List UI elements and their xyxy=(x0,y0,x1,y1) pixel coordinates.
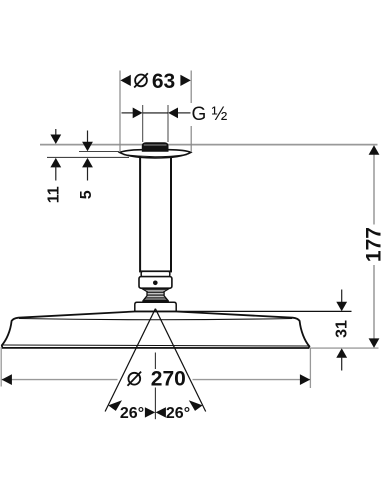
dimension 5 bottom arrow xyxy=(82,158,93,168)
thread cap xyxy=(142,143,168,152)
dimension Ø270 line left xyxy=(2,379,118,381)
dimension 11 bottom stem xyxy=(55,167,57,181)
dimension Ø63 left arrow xyxy=(120,75,130,86)
svg-text:26°: 26° xyxy=(166,405,190,422)
head top plane line with 31 extension xyxy=(135,310,352,312)
svg-text:G ½: G ½ xyxy=(192,104,228,125)
dimension 177 bottom arrow xyxy=(369,338,380,348)
spray cone left arrowhead xyxy=(108,400,122,411)
dimension 11 top stem xyxy=(55,129,57,136)
dimension Ø63 right extension line lower xyxy=(190,126,192,152)
G1/2 right arrow xyxy=(168,108,178,119)
svg-text:11: 11 xyxy=(46,186,63,203)
angle bowtie left arrow xyxy=(145,407,155,417)
dimension Ø270 left extension line xyxy=(0,347,2,387)
dimension 31 bottom stem xyxy=(341,357,343,371)
dimension 5 bottom stem xyxy=(87,167,89,181)
dimension Ø63 right arrow xyxy=(180,75,190,86)
top rim secondary arc xyxy=(19,319,292,320)
center line upper segment xyxy=(154,353,156,370)
thread right extension line xyxy=(167,105,169,142)
svg-text:177: 177 xyxy=(362,227,381,262)
flange bottom edge line xyxy=(124,155,187,157)
thread left extension line xyxy=(142,105,144,142)
spray cone right arrowhead xyxy=(189,400,203,411)
connector band upper xyxy=(141,271,170,276)
dimension Ø63 symbol xyxy=(135,75,147,87)
dimension 177 top arrow xyxy=(369,145,380,155)
G1/2 dimension line middle xyxy=(143,112,168,114)
bottom rim inner line xyxy=(2,345,309,346)
svg-text:5: 5 xyxy=(78,190,95,199)
dimension Ø270 line right xyxy=(193,379,311,381)
G1/2 dimension line right xyxy=(177,112,191,114)
ceiling reference line xyxy=(40,144,378,146)
G1/2 dimension line left xyxy=(122,112,135,114)
dimension 31 top arrow xyxy=(336,302,347,312)
shower head body xyxy=(2,312,310,349)
thread cap ridge lines xyxy=(144,144,167,146)
flange Ø63 xyxy=(120,150,191,158)
spray cone right line xyxy=(155,309,205,412)
dimension 177 line lower xyxy=(373,265,375,343)
dimension 11 bottom arrow xyxy=(50,158,61,168)
head bottom extension line right xyxy=(310,347,379,349)
angle bowtie right arrow xyxy=(156,407,166,417)
flange top extension line xyxy=(79,151,119,153)
dimension 31 top stem xyxy=(341,290,343,304)
dimension Ø270 right arrow xyxy=(300,374,310,385)
dimension Ø63 right extension line upper xyxy=(190,71,192,104)
ribbed swivel neck xyxy=(142,288,170,301)
svg-text:26°: 26° xyxy=(120,405,144,422)
dimension 31 bottom arrow xyxy=(336,348,347,358)
svg-text:63: 63 xyxy=(152,70,175,93)
dimension 11 top arrow xyxy=(50,135,61,145)
dimension Ø270 symbol xyxy=(128,373,140,385)
dimension Ø63 left extension line xyxy=(119,71,121,152)
dimension 5 top arrow xyxy=(82,142,93,152)
spray cone left line xyxy=(105,309,155,412)
dimension Ø270 right extension line xyxy=(309,349,311,389)
pin dot xyxy=(153,281,158,286)
svg-text:270: 270 xyxy=(151,368,186,391)
flange bottom extension line xyxy=(47,156,129,158)
pipe xyxy=(140,154,171,271)
dimension Ø270 left arrow xyxy=(2,374,12,385)
center line lower segment xyxy=(154,388,156,420)
mounting boss xyxy=(135,302,176,311)
dimension 5 top stem xyxy=(87,131,89,144)
connector band with pin xyxy=(139,277,172,289)
neck rib lines xyxy=(143,290,168,301)
neck bottom edge xyxy=(143,300,169,302)
dimension 177 line upper xyxy=(373,150,375,225)
svg-text:31: 31 xyxy=(334,320,351,338)
G1/2 left arrow xyxy=(133,108,143,119)
